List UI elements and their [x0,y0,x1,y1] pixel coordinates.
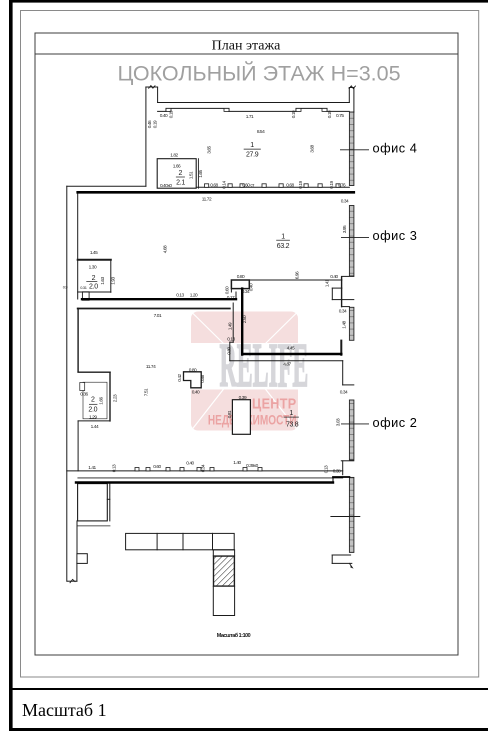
svg-text:1.45: 1.45 [90,250,98,256]
svg-text:План этажа: План этажа [212,39,281,54]
svg-text:0.88: 0.88 [200,374,206,382]
svg-text:0.60 ст: 0.60 ст [242,182,255,188]
svg-text:офис 4: офис 4 [373,141,418,156]
svg-text:0.13: 0.13 [324,465,330,473]
svg-text:1.93: 1.93 [111,276,117,284]
svg-text:0.19: 0.19 [168,110,174,118]
svg-text:1.40: 1.40 [233,460,241,466]
svg-text:6.96: 6.96 [295,271,301,279]
svg-text:0.34: 0.34 [340,390,348,396]
svg-text:НЕДВИЖИМОСТИ: НЕДВИЖИМОСТИ [208,412,297,428]
svg-text:0.34: 0.34 [201,464,207,472]
svg-text:ЦЕНТР: ЦЕНТР [252,394,296,411]
svg-text:8.54: 8.54 [257,129,265,135]
svg-text:1: 1 [289,410,293,417]
svg-text:2: 2 [92,275,96,282]
svg-text:1.44: 1.44 [91,424,99,430]
svg-text:2: 2 [179,170,183,177]
svg-text:73.8: 73.8 [286,421,299,428]
svg-text:0.39х0: 0.39х0 [246,463,258,469]
svg-text:0.68: 0.68 [286,182,294,188]
svg-text:7.01: 7.01 [154,313,162,319]
svg-text:0.38: 0.38 [333,469,341,475]
svg-text:0.13: 0.13 [176,292,184,298]
svg-text:0.19: 0.19 [329,180,335,188]
svg-text:1.82: 1.82 [170,152,178,158]
svg-text:2.0: 2.0 [89,283,98,290]
svg-text:7.51: 7.51 [144,388,150,396]
svg-text:0.19: 0.19 [327,110,333,118]
svg-text:0.40х0: 0.40х0 [160,183,172,189]
svg-text:0.19: 0.19 [153,120,159,128]
svg-text:0.68: 0.68 [210,182,218,188]
svg-text:0.31: 0.31 [80,285,87,290]
svg-text:2.50: 2.50 [242,315,248,323]
svg-text:0.60: 0.60 [224,286,230,294]
svg-text:1.51: 1.51 [188,171,194,179]
svg-text:27.9: 27.9 [246,152,259,159]
svg-text:2.23: 2.23 [113,394,119,402]
svg-text:1: 1 [250,142,254,149]
svg-text:11.74: 11.74 [146,364,156,370]
svg-text:4.45: 4.45 [287,346,295,352]
svg-text:0.40: 0.40 [248,283,254,291]
svg-text:0.80: 0.80 [237,274,245,280]
svg-text:1.49: 1.49 [227,322,233,330]
svg-text:0.40: 0.40 [186,461,194,467]
svg-text:0.14: 0.14 [222,180,228,188]
svg-text:1.29: 1.29 [89,415,97,421]
svg-text:0.13: 0.13 [112,464,118,472]
svg-text:0.40: 0.40 [330,274,338,280]
svg-text:0.80: 0.80 [227,346,233,354]
svg-text:0.40: 0.40 [160,113,168,119]
svg-text:0.42: 0.42 [177,373,183,381]
svg-text:0.81: 0.81 [227,410,233,418]
svg-text:2: 2 [91,397,95,404]
svg-text:Масштаб 1:100: Масштаб 1:100 [217,632,251,639]
svg-text:0.34: 0.34 [339,309,347,315]
svg-text:офис 2: офис 2 [373,415,418,430]
svg-text:11.72: 11.72 [202,196,212,202]
svg-text:1.48: 1.48 [342,320,348,328]
svg-text:2.1: 2.1 [176,179,185,186]
svg-text:1.66: 1.66 [173,164,181,170]
svg-text:1.41: 1.41 [325,279,331,287]
svg-text:1.20: 1.20 [190,292,198,298]
svg-text:3.65: 3.65 [207,145,213,153]
svg-text:1.65: 1.65 [198,169,204,177]
svg-text:0.13: 0.13 [227,337,235,343]
svg-text:1.71: 1.71 [246,114,254,120]
svg-text:0.76: 0.76 [338,182,346,188]
svg-text:0.60: 0.60 [153,464,161,470]
svg-text:1.30: 1.30 [89,264,97,270]
svg-text:0.40: 0.40 [192,389,200,395]
svg-text:0.46: 0.46 [147,120,153,128]
svg-text:0.19: 0.19 [291,110,297,118]
svg-text:1: 1 [281,234,285,241]
svg-text:2.0: 2.0 [88,406,97,413]
svg-text:0.75: 0.75 [336,113,344,119]
svg-text:63.2: 63.2 [277,243,290,250]
svg-text:0.39: 0.39 [239,395,247,401]
svg-text:4.68: 4.68 [163,245,169,253]
svg-text:0.9: 0.9 [63,285,68,290]
svg-text:ЦОКОЛЬНЫЙ ЭТАЖ Н=3.05: ЦОКОЛЬНЫЙ ЭТАЖ Н=3.05 [117,61,400,86]
svg-text:0.34: 0.34 [341,199,349,205]
svg-text:1.41: 1.41 [88,465,96,471]
svg-text:1.63: 1.63 [100,276,106,284]
svg-text:0.19: 0.19 [298,180,304,188]
svg-text:3.95: 3.95 [342,225,348,233]
svg-text:0.36: 0.36 [80,392,88,398]
svg-text:4.87: 4.87 [283,362,291,368]
svg-text:3.68: 3.68 [310,144,316,152]
svg-text:1.66: 1.66 [98,396,104,404]
svg-text:0.80: 0.80 [189,367,197,373]
svg-text:3.03: 3.03 [336,418,342,426]
svg-text:0.17: 0.17 [227,295,235,301]
svg-text:офис 3: офис 3 [373,228,418,243]
